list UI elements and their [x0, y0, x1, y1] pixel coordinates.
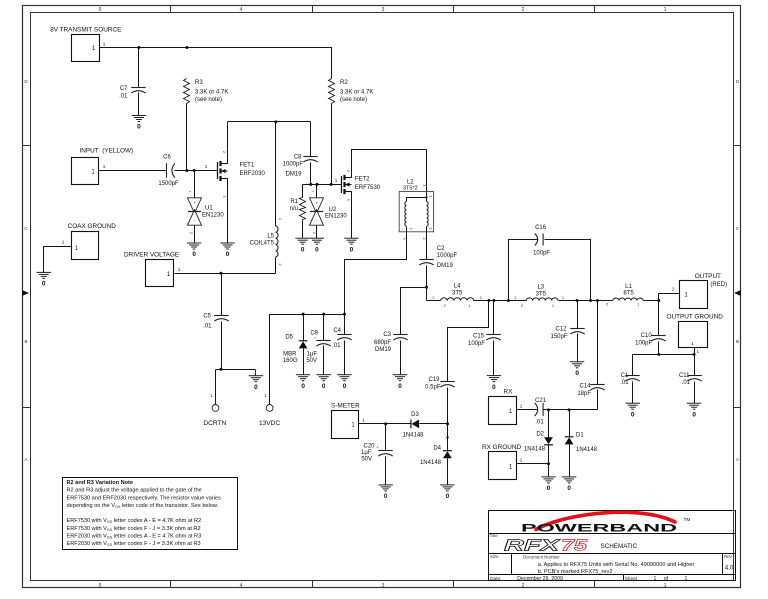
svg-text:COIL4T5: COIL4T5 — [250, 241, 275, 247]
wire L5 top lead — [275, 122, 277, 227]
wire FET2 gate node — [303, 184, 342, 186]
svg-text:3.3K or 4.7K: 3.3K or 4.7K — [340, 89, 373, 95]
junction L5 top — [274, 120, 277, 123]
wire coax ground — [44, 247, 72, 273]
svg-text:1: 1 — [178, 267, 181, 272]
wire FET2 source to ground — [351, 192, 353, 239]
svg-text:1μF: 1μF — [307, 351, 318, 357]
node RX — [489, 389, 523, 425]
svg-text:1000pF: 1000pF — [437, 253, 458, 259]
protector U1 EN1230 — [188, 189, 225, 235]
capacitor C7 — [119, 86, 146, 100]
inductor L1 8T5 — [606, 284, 643, 307]
svg-text:.01: .01 — [203, 324, 212, 330]
junction C4 tap — [343, 313, 346, 316]
ground C12 — [570, 362, 584, 368]
junction below detector node — [446, 436, 448, 438]
wire R2 to FET2 gate node — [331, 104, 333, 185]
svg-text:·: · — [269, 406, 270, 411]
svg-text:1: 1 — [205, 164, 208, 169]
wire 8V rail — [100, 48, 332, 79]
wire 13V rail — [270, 315, 345, 405]
svg-text:1N4148: 1N4148 — [576, 447, 598, 453]
svg-text:DRIVER VOLTAGE: DRIVER VOLTAGE — [124, 251, 179, 258]
svg-text:SCHEMATIC: SCHEMATIC — [601, 543, 638, 550]
svg-text:.01: .01 — [332, 343, 341, 349]
svg-text:OUTPUT GROUND: OUTPUT GROUND — [667, 314, 724, 321]
svg-text:1: 1 — [520, 404, 523, 409]
svg-text:3T5*2: 3T5*2 — [403, 186, 418, 192]
capacitor C4 — [332, 315, 352, 375]
capacitor C1 — [620, 373, 639, 386]
svg-text:COAX GROUND: COAX GROUND — [68, 223, 117, 230]
svg-text:DCRTN: DCRTN — [203, 420, 226, 427]
svg-text:b. PCB's marked RFX75_rev2: b. PCB's marked RFX75_rev2 — [538, 569, 613, 575]
svg-text:Title: Title — [490, 533, 499, 538]
svg-text:1: 1 — [362, 418, 365, 423]
junction C19 tap — [487, 299, 490, 302]
capacitor C14 — [577, 301, 604, 410]
svg-text:2: 2 — [522, 7, 525, 13]
junction R2 bottom — [330, 183, 333, 186]
svg-text:C10: C10 — [641, 333, 653, 339]
svg-text:13VDC: 13VDC — [259, 420, 280, 427]
wire output ground rail — [633, 355, 695, 376]
ground D2 — [541, 477, 555, 483]
junction filter input node — [425, 286, 428, 289]
svg-text:depending on the V​GS letter c: depending on the V​GS letter code of the… — [67, 503, 219, 509]
svg-text:1: 1 — [520, 458, 523, 463]
svg-text:1μF: 1μF — [361, 450, 372, 456]
svg-text:(RED): (RED) — [710, 282, 727, 288]
svg-text:December 29, 2009: December 29, 2009 — [517, 576, 563, 582]
svg-text:ERF2030 with VGS letter codes: ERF2030 with VGS letter codes A - E = 4.… — [67, 534, 202, 540]
node S-METER — [331, 403, 365, 439]
capacitor C5 — [203, 314, 229, 330]
ground C4 — [337, 375, 351, 381]
svg-text:+: + — [315, 201, 318, 206]
svg-text:C7: C7 — [120, 86, 128, 92]
wire D4 to ground — [447, 459, 449, 485]
svg-text:0.5pF: 0.5pF — [425, 384, 441, 390]
junction D5 tap — [302, 313, 305, 316]
svg-text:D2: D2 — [536, 432, 544, 438]
wire U1 leads — [194, 171, 196, 244]
wire to D4 — [447, 424, 449, 451]
svg-text:L5: L5 — [267, 234, 274, 240]
ground C15 — [487, 376, 501, 382]
svg-text:S-METER: S-METER — [331, 403, 360, 410]
wire input to C6 — [99, 170, 167, 172]
svg-text:POWERBAND: POWERBAND — [521, 522, 677, 534]
wire L2 pin2 to C2 — [426, 232, 428, 260]
svg-text:R3: R3 — [195, 80, 203, 86]
svg-text:DM19: DM19 — [437, 263, 454, 269]
junction C8 bottom — [309, 183, 312, 186]
junction C16 right tap — [589, 299, 592, 302]
capacitor C9 — [306, 315, 330, 375]
svg-text:C3: C3 — [383, 332, 391, 338]
node OUTPUT (RED) — [680, 273, 728, 309]
svg-text:1N4148: 1N4148 — [420, 460, 442, 466]
junction C10 tap — [657, 299, 660, 302]
protector U2 EN1230 — [310, 189, 348, 235]
ground C3 — [393, 375, 407, 381]
svg-text:1: 1 — [335, 178, 338, 183]
svg-text:1500pF: 1500pF — [158, 181, 179, 187]
svg-text:0: 0 — [631, 411, 635, 418]
svg-text:D4: D4 — [433, 446, 441, 452]
svg-text:50V: 50V — [306, 358, 317, 364]
svg-text:C21: C21 — [535, 398, 547, 404]
ground R1 — [295, 238, 309, 244]
wire C8 leads — [310, 122, 312, 185]
svg-text:0: 0 — [42, 281, 46, 288]
svg-text:0: 0 — [301, 246, 305, 253]
junction C10 bottom — [657, 353, 660, 356]
ground C1 — [625, 403, 639, 409]
svg-text:1: 1 — [103, 42, 106, 47]
svg-text:RFX: RFX — [504, 538, 562, 555]
capacitor C2 — [419, 246, 457, 269]
wire RX to C21 — [517, 409, 538, 411]
svg-text:·: · — [215, 406, 216, 411]
svg-text:C2: C2 — [437, 246, 445, 252]
svg-text:5: 5 — [99, 7, 102, 13]
svg-text:5: 5 — [99, 583, 102, 589]
svg-text:3T5: 3T5 — [452, 290, 463, 296]
wire C7 leads — [138, 48, 140, 116]
svg-text:C15: C15 — [473, 334, 485, 340]
wire DCRTN node — [216, 370, 256, 405]
svg-text:0: 0 — [301, 383, 305, 390]
svg-text:B: B — [736, 339, 739, 344]
svg-text:3: 3 — [382, 7, 385, 13]
inductor L5 COIL4T5 — [250, 226, 278, 257]
capacitor C11 — [679, 373, 702, 386]
svg-text:DM19: DM19 — [375, 347, 392, 353]
junction C20 tap — [384, 422, 387, 425]
svg-text:1: 1 — [62, 240, 65, 245]
svg-text:L4: L4 — [454, 283, 461, 289]
svg-text:L3: L3 — [537, 284, 544, 290]
capacitor C6 — [158, 155, 179, 187]
svg-text:EN1230: EN1230 — [202, 212, 224, 218]
junction C9 tap — [322, 313, 325, 316]
wire C1 to ground — [632, 382, 634, 404]
wire C2 to filter node — [426, 266, 428, 301]
svg-text:0: 0 — [192, 251, 196, 258]
wire RX ground to D2 — [517, 463, 549, 465]
transistor FET1 ERF2030 — [218, 151, 266, 199]
wire L3 to L1 — [559, 300, 613, 302]
wire C3 to ground — [400, 341, 402, 375]
svg-text:ERF2030: ERF2030 — [240, 171, 266, 177]
svg-text:FET1: FET1 — [240, 163, 255, 169]
svg-text:75: 75 — [561, 538, 587, 555]
svg-text:0: 0 — [547, 485, 551, 492]
title block fields — [490, 554, 734, 582]
wire drain link to C8 — [228, 121, 311, 123]
svg-text:a. Applies to RFX75 Units with: a. Applies to RFX75 Units with Serial No… — [538, 562, 695, 568]
svg-text:0: 0 — [343, 383, 347, 390]
wire L5 bottom lead — [275, 258, 277, 274]
svg-text:Date:: Date: — [490, 576, 501, 582]
wire D3 to detector node — [420, 423, 448, 425]
svg-text:EN1230: EN1230 — [325, 213, 347, 219]
wire FET1 drain up — [227, 122, 229, 164]
svg-text:.01: .01 — [535, 420, 544, 426]
svg-text:8V TRANSMIT SOURCE: 8V TRANSMIT SOURCE — [50, 26, 121, 33]
capacitor C3 — [374, 332, 408, 353]
svg-text:.01: .01 — [620, 380, 629, 386]
svg-text:1: 1 — [672, 287, 675, 292]
node RX GROUND — [482, 444, 523, 480]
junction U2 top — [315, 183, 318, 186]
svg-text:C1: C1 — [621, 373, 629, 379]
svg-text:C5: C5 — [203, 314, 211, 320]
wire driver voltage to L5 — [175, 273, 276, 275]
svg-text:C4: C4 — [333, 328, 341, 334]
wire C19 dogleg — [448, 301, 489, 382]
svg-text:.01: .01 — [119, 94, 128, 100]
title RFX75 SCHEMATIC — [490, 533, 638, 555]
svg-text:1N4148: 1N4148 — [524, 447, 546, 453]
svg-text:1: 1 — [664, 7, 667, 13]
node 8V TRANSMIT SOURCE — [50, 26, 121, 61]
ground C7 — [132, 116, 146, 122]
svg-text:0: 0 — [398, 383, 402, 390]
diode D5 MBR160G — [283, 315, 308, 375]
svg-text:+: + — [193, 201, 196, 206]
svg-text:TM: TM — [684, 517, 691, 523]
svg-text:RX GROUND: RX GROUND — [482, 444, 521, 451]
svg-text:0: 0 — [384, 493, 388, 500]
ground C11 — [687, 403, 701, 409]
svg-text:C8: C8 — [294, 155, 302, 161]
svg-text:(see note): (see note) — [340, 97, 367, 103]
title block — [489, 511, 736, 581]
svg-text:.01: .01 — [682, 380, 691, 386]
wire C19 to detector node — [447, 388, 449, 425]
svg-text:3: 3 — [382, 583, 385, 589]
capacitor C16 — [533, 225, 550, 257]
svg-text:2: 2 — [522, 583, 525, 589]
ground FET1 source — [220, 243, 234, 249]
svg-text:U1: U1 — [205, 205, 213, 211]
svg-text:C11: C11 — [679, 373, 690, 379]
resistor R3 — [184, 79, 229, 104]
wire R3 to FET1 gate node — [186, 104, 188, 171]
capacitor C8 — [283, 155, 318, 178]
junction detector node — [446, 422, 449, 425]
svg-text:U2: U2 — [329, 207, 337, 213]
svg-text:0: 0 — [575, 370, 579, 377]
capacitor C15 — [468, 301, 501, 376]
junction output ground — [693, 353, 696, 356]
ground DCRTN node — [249, 376, 263, 382]
junction RX ground tap — [547, 462, 550, 465]
svg-text:0: 0 — [350, 246, 354, 253]
junction R3 bottom — [185, 169, 188, 172]
wire L4 to L3 — [474, 300, 527, 302]
ground D1 — [562, 477, 576, 483]
svg-text:0: 0 — [446, 493, 450, 500]
svg-text:C20: C20 — [363, 443, 375, 449]
svg-text:0: 0 — [692, 411, 696, 418]
ground U2 — [310, 238, 324, 244]
svg-text:R2 and R3 Variation Note: R2 and R3 Variation Note — [67, 480, 134, 486]
node COAX GROUND — [62, 223, 117, 260]
svg-text:C19: C19 — [428, 377, 440, 383]
svg-text:1: 1 — [685, 576, 688, 582]
svg-text:0: 0 — [254, 384, 258, 391]
note R2 and R3 Variation Note — [63, 478, 238, 550]
junction C14 tap — [596, 299, 599, 302]
svg-text:C12: C12 — [555, 327, 567, 333]
svg-text:DM19: DM19 — [285, 171, 302, 177]
capacitor C21 — [535, 398, 547, 426]
svg-text:100pF: 100pF — [533, 251, 550, 257]
svg-text:D1: D1 — [576, 432, 584, 438]
wire L4 input — [427, 300, 441, 302]
ground D4 — [440, 485, 454, 491]
node OUTPUT GROUND — [667, 314, 724, 348]
svg-text:Sheet: Sheet — [625, 576, 638, 582]
svg-text:3T5: 3T5 — [536, 291, 547, 297]
wire FET2 drain to L2 — [352, 150, 427, 202]
ground coax — [37, 272, 51, 278]
junction D1 tap — [568, 408, 571, 411]
svg-text:of: of — [664, 576, 669, 582]
resistor R2 — [329, 79, 374, 104]
svg-text:1: 1 — [654, 576, 657, 582]
transformer L2 3T5*2 — [399, 179, 433, 240]
junction C5 tap — [220, 272, 223, 275]
svg-text:C16: C16 — [535, 225, 547, 231]
svg-text:8T5: 8T5 — [623, 291, 634, 297]
resistor R1 n/u — [290, 198, 306, 220]
svg-text:B: B — [24, 339, 27, 344]
svg-text:C14: C14 — [579, 383, 591, 389]
svg-text:D3: D3 — [411, 412, 419, 418]
svg-text:1: 1 — [691, 341, 694, 346]
wire D2 to ground — [548, 464, 550, 477]
svg-text:Rev: Rev — [724, 554, 733, 559]
wire output ground stub — [694, 348, 696, 355]
svg-text:C6: C6 — [163, 155, 171, 161]
svg-text:ERF7530 and ERF2030 respective: ERF7530 and ERF2030 respectively. The re… — [67, 495, 222, 501]
svg-text:MBR: MBR — [283, 351, 297, 357]
svg-text:18pF: 18pF — [577, 391, 591, 397]
svg-text:FET2: FET2 — [355, 177, 370, 183]
svg-text:150pF: 150pF — [550, 334, 567, 340]
transistor FET2 ERF7530 — [342, 170, 381, 202]
node DRIVER VOLTAGE — [124, 251, 181, 286]
svg-text:0: 0 — [322, 383, 326, 390]
svg-text:100pF: 100pF — [635, 340, 652, 346]
svg-text:R2 and R3 adjust the voltage a: R2 and R3 adjust the voltage applied to … — [67, 488, 202, 494]
svg-text:R1: R1 — [290, 199, 298, 205]
logo POWERBAND — [521, 512, 690, 534]
svg-text:OUTPUT: OUTPUT — [695, 273, 721, 280]
svg-text:1: 1 — [103, 164, 106, 169]
wire to C3 — [401, 288, 427, 335]
diode D4 1N4148 — [420, 446, 452, 466]
junction C12 tap — [576, 299, 579, 302]
svg-text:50V: 50V — [361, 456, 372, 462]
svg-text:ERF7530 with VGS letter codes: ERF7530 with VGS letter codes A - E = 4.… — [67, 518, 202, 524]
svg-text:ERF7530 with VGS letter codes: ERF7530 with VGS letter codes F - J = 3.… — [67, 526, 201, 532]
svg-text:R2: R2 — [340, 80, 348, 86]
junction C16 left tap — [507, 299, 510, 302]
wire R1 leads — [302, 185, 304, 239]
ground U1 — [187, 243, 201, 249]
svg-text:100pF: 100pF — [468, 341, 485, 347]
svg-text:4: 4 — [240, 7, 243, 13]
wire detector rail — [543, 409, 598, 411]
svg-text:680pF: 680pF — [374, 340, 391, 346]
svg-text:0: 0 — [137, 124, 141, 131]
junction U1 top — [193, 169, 196, 172]
inductor L4 3T5 — [441, 283, 474, 308]
svg-text:1000pF: 1000pF — [283, 161, 304, 167]
svg-text:RX: RX — [504, 389, 514, 396]
capacitor C19 — [425, 377, 455, 390]
svg-text:4: 4 — [240, 583, 243, 589]
svg-text:0: 0 — [492, 384, 496, 391]
terminal DCRTN — [203, 405, 226, 427]
svg-text:L2: L2 — [407, 179, 414, 185]
svg-text:ERF7530: ERF7530 — [355, 185, 381, 191]
capacitor C10 — [635, 301, 666, 355]
svg-text:n/u: n/u — [290, 206, 298, 212]
wire L2 pin3 to 13V rail — [345, 232, 407, 315]
svg-text:(see note): (see note) — [195, 97, 222, 103]
wire C16 loop — [509, 240, 591, 301]
junction C15 tap — [492, 299, 495, 302]
junction C7 tap — [137, 46, 140, 49]
svg-text:3.3K or 4.7K: 3.3K or 4.7K — [195, 89, 228, 95]
svg-text:1N4148: 1N4148 — [402, 432, 424, 438]
wire C5 leads — [221, 274, 223, 370]
svg-text:Size: Size — [490, 554, 499, 559]
terminal 13VDC — [259, 405, 280, 427]
ground FET2 source — [344, 238, 358, 244]
svg-text:160G: 160G — [283, 358, 298, 364]
wire FET1 source to ground — [227, 179, 229, 244]
svg-text:Document Number: Document Number — [523, 555, 560, 560]
svg-text:ERF2030 with VGS letter codes: ERF2030 with VGS letter codes F - J = 3.… — [67, 541, 201, 547]
diode D1 1N4148 — [565, 410, 598, 477]
svg-text:D5: D5 — [285, 335, 293, 341]
svg-text:0: 0 — [567, 485, 571, 492]
svg-text:0: 0 — [226, 251, 230, 258]
inductor L3 3T5 — [521, 284, 558, 308]
diode D2 1N4148 — [524, 410, 553, 464]
diode D3 1N4148 — [402, 412, 424, 438]
capacitor C20 — [361, 424, 393, 485]
junction DCRTN node — [220, 368, 223, 371]
junction D2 tap — [547, 408, 550, 411]
wire C6 to FET1 gate — [175, 170, 218, 172]
svg-text:0: 0 — [315, 246, 319, 253]
wire S-meter to D3 — [359, 423, 411, 425]
ground C20 — [379, 485, 393, 491]
junction R3 tap — [185, 46, 188, 49]
svg-text:4.0: 4.0 — [725, 564, 734, 571]
wire U2 leads — [316, 185, 318, 239]
